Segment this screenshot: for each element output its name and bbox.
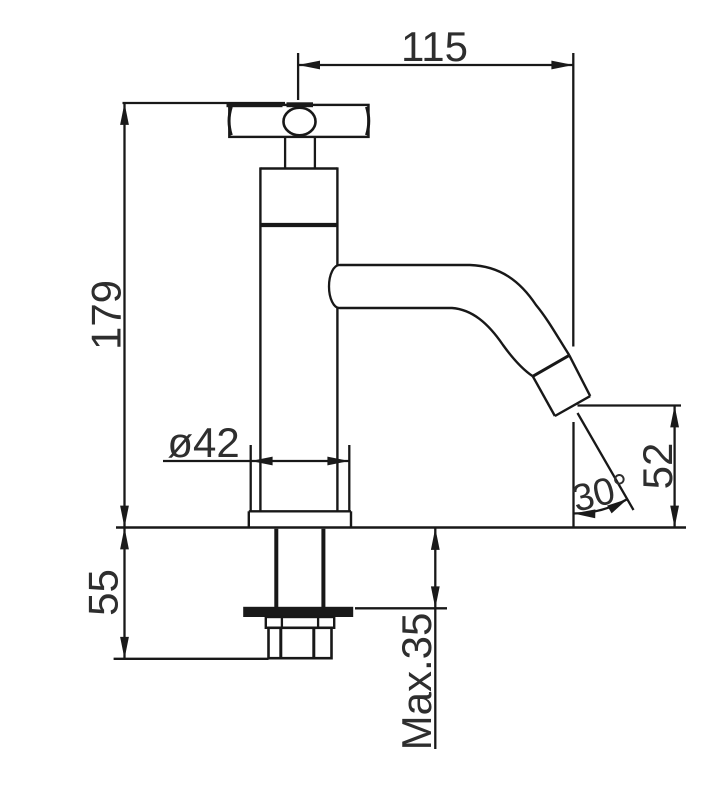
dim 115 dimension line (298, 64, 573, 66)
svg-text:55: 55 (80, 569, 127, 616)
stem right line (314, 137, 316, 169)
handle bar (cross handle side view) (229, 105, 368, 137)
dim 115 right arrow (551, 61, 573, 70)
svg-text:52: 52 (634, 443, 681, 490)
dim 179 top extension line (123, 102, 286, 104)
dim Max.35 bottom arrow (431, 586, 440, 608)
base flange left edge (248, 511, 250, 527)
aerator separator line (533, 355, 570, 376)
hex nut outline (269, 628, 332, 658)
dim 52 top arrow (670, 406, 679, 428)
body right edge lower (336, 308, 338, 511)
dim Max.35 dimension line (434, 528, 436, 749)
washer (filled bar) (243, 607, 353, 617)
dim 42 left arrow (251, 457, 273, 466)
angle 30 vertical reference line (572, 422, 574, 527)
nut facet line right (312, 628, 315, 658)
svg-text:Max.35: Max.35 (393, 613, 440, 751)
dim 115 right extension line (572, 53, 574, 347)
angle 30 arc (574, 499, 628, 514)
spout bottom edge (340, 308, 533, 376)
dim 42 dimension line (163, 460, 349, 462)
dim 52 bottom arrow (670, 506, 679, 528)
dim 42 right arrow (327, 457, 349, 466)
angle 30 leader line (578, 413, 634, 510)
collar facet line left (281, 617, 283, 628)
body right edge upper (336, 167, 338, 265)
valve screw circle (284, 108, 316, 136)
nut facet line left (279, 628, 282, 658)
handle top thick bar right (287, 102, 314, 107)
dim 52 dimension line (673, 406, 675, 528)
dim 115 left extension line (297, 53, 299, 100)
svg-text:30°: 30° (568, 466, 634, 521)
aerator left edge (533, 376, 555, 416)
handle top thick bar left (227, 102, 283, 107)
dim Max.35 bottom extension line (355, 607, 447, 609)
dim 115 left arrow (298, 61, 320, 70)
threaded shank left line (274, 529, 278, 607)
aerator right edge (569, 355, 590, 396)
svg-text:ø42: ø42 (167, 419, 239, 466)
spout top edge (340, 265, 570, 355)
threaded shank right line (321, 529, 325, 607)
bonnet joint thick line (260, 223, 337, 227)
aerator outlet face (555, 396, 590, 416)
svg-text:115: 115 (401, 23, 468, 70)
body left edge (259, 167, 261, 511)
mounting deck line (116, 526, 686, 529)
angle 30 arc right arrow (607, 499, 627, 513)
dim 55 bottom extension line (114, 658, 269, 660)
stem left line (284, 137, 286, 169)
dim 179 bottom arrow (120, 506, 129, 528)
dim 42 left extension line (250, 445, 252, 511)
base flange top (249, 510, 351, 512)
svg-text:179: 179 (83, 280, 130, 350)
dim 179 top arrow (120, 103, 129, 125)
body top edge (260, 167, 337, 169)
locknut collar outline (266, 617, 334, 628)
handle right end cap (367, 107, 369, 135)
angle 30 arc left arrow (574, 509, 596, 518)
handle left end cap (229, 107, 231, 135)
dim 55 top arrow (120, 528, 129, 550)
dim 52 top extension line (578, 404, 682, 406)
dim 42 right extension line (348, 445, 350, 511)
dim 55 bottom arrow (120, 637, 129, 659)
collar facet line right (317, 617, 319, 628)
dim 179/55 dimension line (123, 103, 125, 659)
dim Max.35 top arrow (431, 528, 440, 550)
spout root cap arc (329, 265, 340, 308)
base flange right edge (350, 511, 352, 527)
